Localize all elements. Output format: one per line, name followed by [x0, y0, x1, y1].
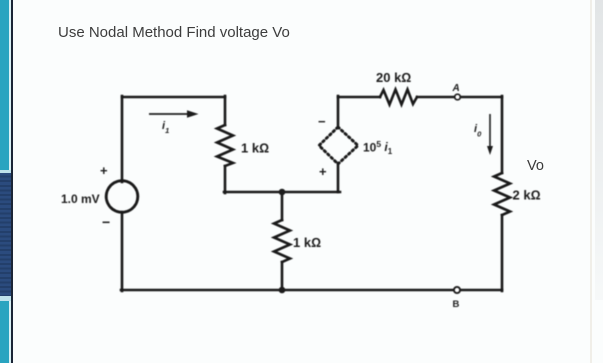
wire right vertical upper — [501, 96, 504, 173]
node B terminal circle — [454, 287, 460, 293]
junction dot middle bottom — [279, 287, 286, 294]
svg-text:1.0 mV: 1.0 mV — [61, 192, 100, 206]
dependent source U1 diamond — [319, 127, 358, 164]
svg-text:+: + — [100, 163, 108, 178]
svg-text:B: B — [453, 299, 460, 310]
left sidebar light gap line — [9, 0, 11, 363]
resistor R1 1 kOhm (left loop) — [217, 125, 233, 166]
label Vo — [527, 158, 544, 174]
faint right edge line — [590, 0, 592, 363]
svg-text:2 kΩ: 2 kΩ — [513, 188, 541, 203]
svg-text:A: A — [452, 83, 460, 94]
current arrow io — [487, 114, 493, 155]
svg-text:+: + — [319, 164, 327, 179]
svg-text:105 i1: 105 i1 — [363, 139, 393, 156]
wire bottom horizontal — [121, 289, 502, 292]
voltage source V1 1.0 mV — [106, 181, 138, 213]
faint right edge gray band (top) — [595, 0, 603, 300]
wire middle resistor top lead — [281, 192, 284, 220]
left sidebar navy block — [0, 173, 11, 296]
navy block top light separator — [0, 170, 11, 173]
wire diamond top vertical — [337, 96, 340, 128]
svg-text:−: − — [318, 114, 326, 129]
wire left vertical upper — [121, 96, 124, 182]
wire top-right horizontal right part — [417, 96, 502, 99]
current arrow i1 — [149, 110, 199, 117]
resistor R3 2 kOhm — [494, 173, 510, 215]
wire left-loop right vertical lower — [224, 166, 227, 193]
svg-text:1 kΩ: 1 kΩ — [293, 235, 321, 250]
svg-text:−: − — [102, 214, 110, 230]
svg-text:20 kΩ: 20 kΩ — [376, 70, 411, 85]
svg-text:1 kΩ: 1 kΩ — [241, 141, 269, 156]
wire middle horizontal — [224, 191, 340, 194]
wire middle resistor bottom lead — [281, 262, 284, 290]
resistor R2 20 kOhm — [380, 90, 417, 105]
wire top-left horizontal — [122, 96, 225, 99]
wire diamond bottom vertical — [337, 163, 340, 192]
resistor R4 1 kOhm (middle) — [274, 220, 290, 262]
title text — [58, 24, 290, 41]
svg-text:i0: i0 — [474, 123, 482, 139]
wire left-loop right vertical upper — [224, 96, 227, 125]
wire left vertical lower — [121, 212, 124, 291]
left sidebar dark vertical line — [11, 0, 14, 363]
navy block bottom light separator — [0, 296, 11, 301]
node A terminal circle — [455, 94, 461, 100]
wire right vertical lower — [501, 215, 504, 291]
junction dot middle top — [279, 189, 286, 196]
svg-text:i1: i1 — [162, 120, 169, 135]
wire top-right horizontal left part — [338, 96, 380, 99]
left sidebar cyan bar — [0, 0, 9, 363]
